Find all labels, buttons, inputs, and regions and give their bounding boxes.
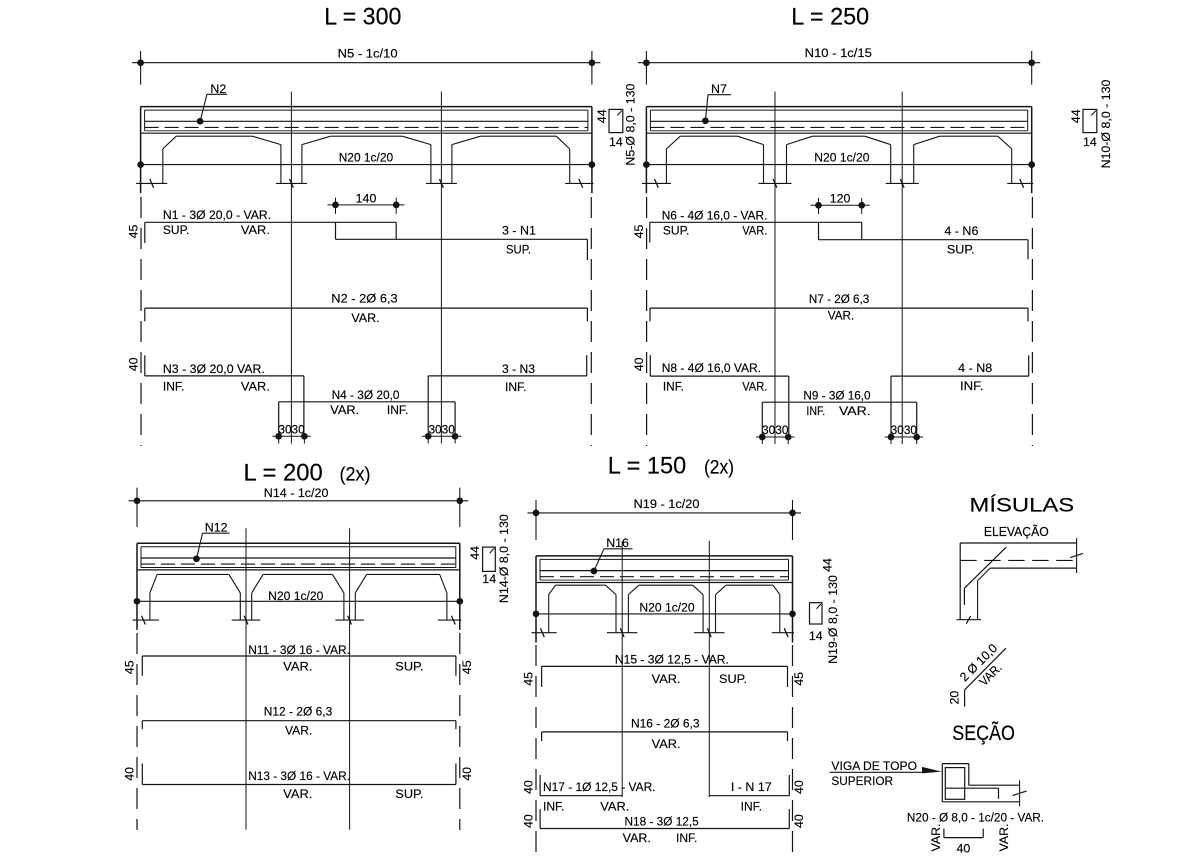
svg-text:3030: 3030 bbox=[891, 423, 917, 437]
svg-text:N14-Ø 8,0 - 130: N14-Ø 8,0 - 130 bbox=[497, 514, 511, 603]
svg-text:3 - N1: 3 - N1 bbox=[502, 223, 536, 237]
svg-text:3030: 3030 bbox=[278, 422, 304, 436]
svg-text:N15 - 3Ø 12,5 - VAR.: N15 - 3Ø 12,5 - VAR. bbox=[615, 652, 729, 666]
svg-text:N12: N12 bbox=[205, 521, 228, 535]
svg-text:L = 300: L = 300 bbox=[324, 3, 401, 30]
svg-text:N16 - 2Ø 6,3: N16 - 2Ø 6,3 bbox=[631, 716, 700, 730]
svg-text:N18 - 3Ø 12,5: N18 - 3Ø 12,5 bbox=[625, 814, 699, 828]
svg-text:SUP.: SUP. bbox=[506, 242, 531, 256]
svg-text:45: 45 bbox=[632, 225, 646, 239]
svg-text:SUP.: SUP. bbox=[163, 223, 190, 237]
svg-text:SUP.: SUP. bbox=[719, 672, 747, 686]
svg-text:L = 250: L = 250 bbox=[791, 4, 869, 31]
svg-text:14: 14 bbox=[809, 629, 823, 643]
svg-text:VAR.: VAR. bbox=[283, 787, 312, 801]
svg-text:44: 44 bbox=[595, 109, 609, 123]
svg-text:45: 45 bbox=[123, 660, 137, 674]
svg-text:ELEVAÇÃO: ELEVAÇÃO bbox=[984, 524, 1049, 539]
svg-text:(2x): (2x) bbox=[704, 458, 734, 479]
svg-text:40: 40 bbox=[127, 357, 141, 371]
svg-text:N20 - Ø 8,0 - 1c/20 - VAR.: N20 - Ø 8,0 - 1c/20 - VAR. bbox=[907, 810, 1044, 824]
svg-text:40: 40 bbox=[123, 767, 137, 781]
svg-text:VAR.: VAR. bbox=[742, 224, 767, 238]
svg-text:140: 140 bbox=[356, 191, 377, 205]
svg-text:N12 - 2Ø 6,3: N12 - 2Ø 6,3 bbox=[264, 705, 333, 719]
svg-text:45: 45 bbox=[792, 672, 806, 686]
svg-text:N8 - 4Ø 16,0 VAR.: N8 - 4Ø 16,0 VAR. bbox=[662, 361, 761, 375]
svg-text:SEÇÃO: SEÇÃO bbox=[952, 721, 1015, 745]
svg-text:INF.: INF. bbox=[543, 799, 564, 813]
svg-text:N7 - 2Ø 6,3: N7 - 2Ø 6,3 bbox=[809, 292, 870, 306]
svg-text:VAR.: VAR. bbox=[241, 223, 270, 237]
svg-text:N20 1c/20: N20 1c/20 bbox=[639, 601, 694, 615]
svg-text:N7: N7 bbox=[711, 82, 727, 96]
svg-text:SUPERIOR: SUPERIOR bbox=[831, 774, 893, 788]
svg-text:L = 150: L = 150 bbox=[608, 453, 687, 480]
svg-text:40: 40 bbox=[957, 841, 971, 855]
svg-text:N10 - 1c/15: N10 - 1c/15 bbox=[805, 46, 872, 60]
svg-text:N20 1c/20: N20 1c/20 bbox=[268, 589, 323, 603]
svg-text:N20 1c/20: N20 1c/20 bbox=[814, 150, 869, 164]
svg-text:N14 - 1c/20: N14 - 1c/20 bbox=[264, 486, 329, 500]
svg-text:N11 - 3Ø 16 - VAR.: N11 - 3Ø 16 - VAR. bbox=[248, 643, 350, 657]
svg-text:VAR.: VAR. bbox=[241, 379, 270, 393]
svg-text:14: 14 bbox=[1083, 135, 1097, 149]
svg-text:(2x): (2x) bbox=[340, 465, 371, 486]
svg-text:VAR.: VAR. bbox=[742, 379, 767, 393]
svg-text:VAR.: VAR. bbox=[330, 403, 359, 417]
svg-text:40: 40 bbox=[792, 814, 806, 828]
svg-text:INF.: INF. bbox=[741, 799, 762, 813]
svg-text:I - N 17: I - N 17 bbox=[731, 780, 772, 794]
svg-text:VAR.: VAR. bbox=[283, 659, 312, 673]
svg-text:N10-Ø 8,0 - 130: N10-Ø 8,0 - 130 bbox=[1099, 79, 1113, 168]
svg-text:INF.: INF. bbox=[505, 380, 526, 394]
svg-text:N17 - 1Ø 12,5 - VAR.: N17 - 1Ø 12,5 - VAR. bbox=[543, 780, 656, 794]
svg-text:120: 120 bbox=[830, 191, 851, 205]
svg-text:N5 - 1c/10: N5 - 1c/10 bbox=[338, 46, 398, 60]
svg-text:45: 45 bbox=[522, 672, 536, 686]
svg-text:VAR.: VAR. bbox=[929, 824, 943, 852]
svg-text:INF.: INF. bbox=[960, 379, 983, 393]
svg-text:VAR.: VAR. bbox=[623, 831, 651, 845]
svg-text:40: 40 bbox=[522, 780, 536, 794]
svg-text:3030: 3030 bbox=[762, 423, 788, 437]
svg-text:40: 40 bbox=[632, 357, 646, 371]
svg-text:N5-Ø 8,0 - 130: N5-Ø 8,0 - 130 bbox=[624, 84, 638, 166]
svg-text:N9 - 3Ø 16,0: N9 - 3Ø 16,0 bbox=[803, 389, 870, 403]
svg-text:45: 45 bbox=[460, 660, 474, 674]
svg-text:N2: N2 bbox=[210, 82, 226, 96]
svg-text:N6 - 4Ø 16,0 - VAR.: N6 - 4Ø 16,0 - VAR. bbox=[662, 208, 768, 222]
svg-text:VAR.: VAR. bbox=[652, 672, 681, 686]
svg-text:VIGA DE TOPO: VIGA DE TOPO bbox=[831, 759, 917, 773]
svg-text:L = 200: L = 200 bbox=[244, 460, 323, 487]
svg-text:45: 45 bbox=[127, 225, 141, 239]
svg-text:44: 44 bbox=[820, 558, 834, 572]
svg-text:VAR.: VAR. bbox=[285, 724, 312, 738]
svg-text:VAR.: VAR. bbox=[600, 799, 629, 813]
svg-text:N13 - 3Ø 16 - VAR.: N13 - 3Ø 16 - VAR. bbox=[248, 769, 350, 783]
svg-text:SUP.: SUP. bbox=[395, 659, 423, 673]
svg-text:44: 44 bbox=[1069, 109, 1083, 123]
svg-text:N20 1c/20: N20 1c/20 bbox=[339, 150, 394, 164]
svg-text:40: 40 bbox=[522, 814, 536, 828]
svg-text:INF.: INF. bbox=[387, 403, 408, 417]
svg-text:20: 20 bbox=[948, 691, 962, 705]
svg-text:N2 - 2Ø 6,3: N2 - 2Ø 6,3 bbox=[331, 292, 398, 306]
svg-text:14: 14 bbox=[482, 572, 496, 586]
svg-text:3 - N3: 3 - N3 bbox=[502, 362, 535, 376]
svg-text:N16: N16 bbox=[606, 536, 629, 550]
svg-text:MÍSULAS: MÍSULAS bbox=[970, 493, 1075, 516]
svg-text:INF.: INF. bbox=[806, 404, 825, 418]
svg-text:SUP.: SUP. bbox=[663, 224, 690, 238]
svg-text:N19-Ø 8,0 - 130: N19-Ø 8,0 - 130 bbox=[826, 575, 840, 664]
svg-text:VAR.: VAR. bbox=[828, 308, 854, 322]
svg-text:40: 40 bbox=[460, 767, 474, 781]
svg-text:VAR.: VAR. bbox=[351, 311, 379, 325]
svg-text:44: 44 bbox=[468, 546, 482, 560]
svg-text:4 - N8: 4 - N8 bbox=[958, 361, 992, 375]
svg-text:VAR.: VAR. bbox=[652, 737, 681, 751]
svg-text:3030: 3030 bbox=[428, 422, 454, 436]
svg-text:INF.: INF. bbox=[163, 379, 184, 393]
svg-text:INF.: INF. bbox=[676, 831, 697, 845]
svg-text:N1 - 3Ø 20,0 - VAR.: N1 - 3Ø 20,0 - VAR. bbox=[163, 208, 271, 222]
svg-text:INF.: INF. bbox=[663, 379, 684, 393]
svg-text:VAR.: VAR. bbox=[839, 404, 871, 418]
svg-text:4 - N6: 4 - N6 bbox=[944, 224, 978, 238]
svg-text:N4 - 3Ø 20,0: N4 - 3Ø 20,0 bbox=[332, 388, 400, 402]
svg-text:N19 - 1c/20: N19 - 1c/20 bbox=[634, 497, 700, 511]
svg-text:SUP.: SUP. bbox=[395, 787, 423, 801]
svg-text:SUP.: SUP. bbox=[947, 243, 975, 257]
svg-text:14: 14 bbox=[609, 135, 623, 149]
svg-text:VAR.: VAR. bbox=[997, 824, 1011, 852]
svg-text:40: 40 bbox=[792, 780, 806, 794]
svg-text:N3 - 3Ø 20,0 VAR.: N3 - 3Ø 20,0 VAR. bbox=[163, 362, 265, 376]
